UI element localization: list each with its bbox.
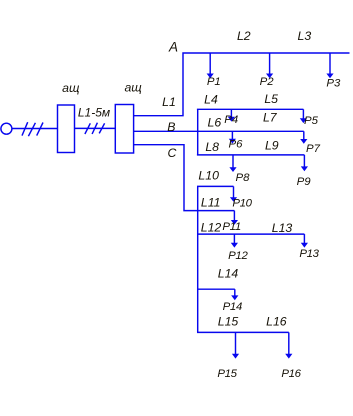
svg-text:L6: L6 <box>208 115 222 129</box>
svg-text:L16: L16 <box>266 315 287 329</box>
svg-text:L8: L8 <box>205 140 219 154</box>
svg-text:L4: L4 <box>204 93 218 107</box>
svg-text:P7: P7 <box>306 143 321 155</box>
svg-text:L2: L2 <box>237 29 251 43</box>
svg-text:L5: L5 <box>264 92 278 106</box>
svg-text:P6: P6 <box>229 139 244 151</box>
svg-text:L13: L13 <box>272 221 293 235</box>
svg-text:P1: P1 <box>207 76 221 88</box>
svg-text:L1-5м: L1-5м <box>78 106 110 120</box>
svg-text:L12: L12 <box>201 221 222 235</box>
svg-text:L15: L15 <box>218 315 239 329</box>
svg-text:L14: L14 <box>218 267 239 281</box>
svg-text:P16: P16 <box>281 368 301 380</box>
svg-text:P13: P13 <box>299 248 319 260</box>
svg-text:A: A <box>168 40 178 55</box>
svg-text:P9: P9 <box>297 176 312 188</box>
svg-text:P3: P3 <box>326 78 341 90</box>
svg-text:P11: P11 <box>222 221 241 233</box>
svg-text:P2: P2 <box>260 76 275 88</box>
svg-text:P4: P4 <box>224 114 238 126</box>
svg-text:L11: L11 <box>201 196 221 210</box>
svg-text:P10: P10 <box>232 198 252 210</box>
svg-text:P12: P12 <box>228 250 248 262</box>
svg-text:P14: P14 <box>223 301 242 313</box>
svg-text:B: B <box>167 120 175 134</box>
svg-text:ащ: ащ <box>124 81 142 95</box>
svg-text:L3: L3 <box>298 29 312 43</box>
svg-text:L1: L1 <box>162 95 176 109</box>
svg-text:P15: P15 <box>217 368 237 380</box>
svg-text:P5: P5 <box>304 115 319 127</box>
svg-text:C: C <box>167 146 176 160</box>
svg-text:L9: L9 <box>265 139 279 153</box>
svg-text:L7: L7 <box>263 111 278 125</box>
svg-text:P8: P8 <box>236 172 251 184</box>
svg-text:L10: L10 <box>198 169 219 183</box>
svg-text:ащ: ащ <box>62 81 80 95</box>
